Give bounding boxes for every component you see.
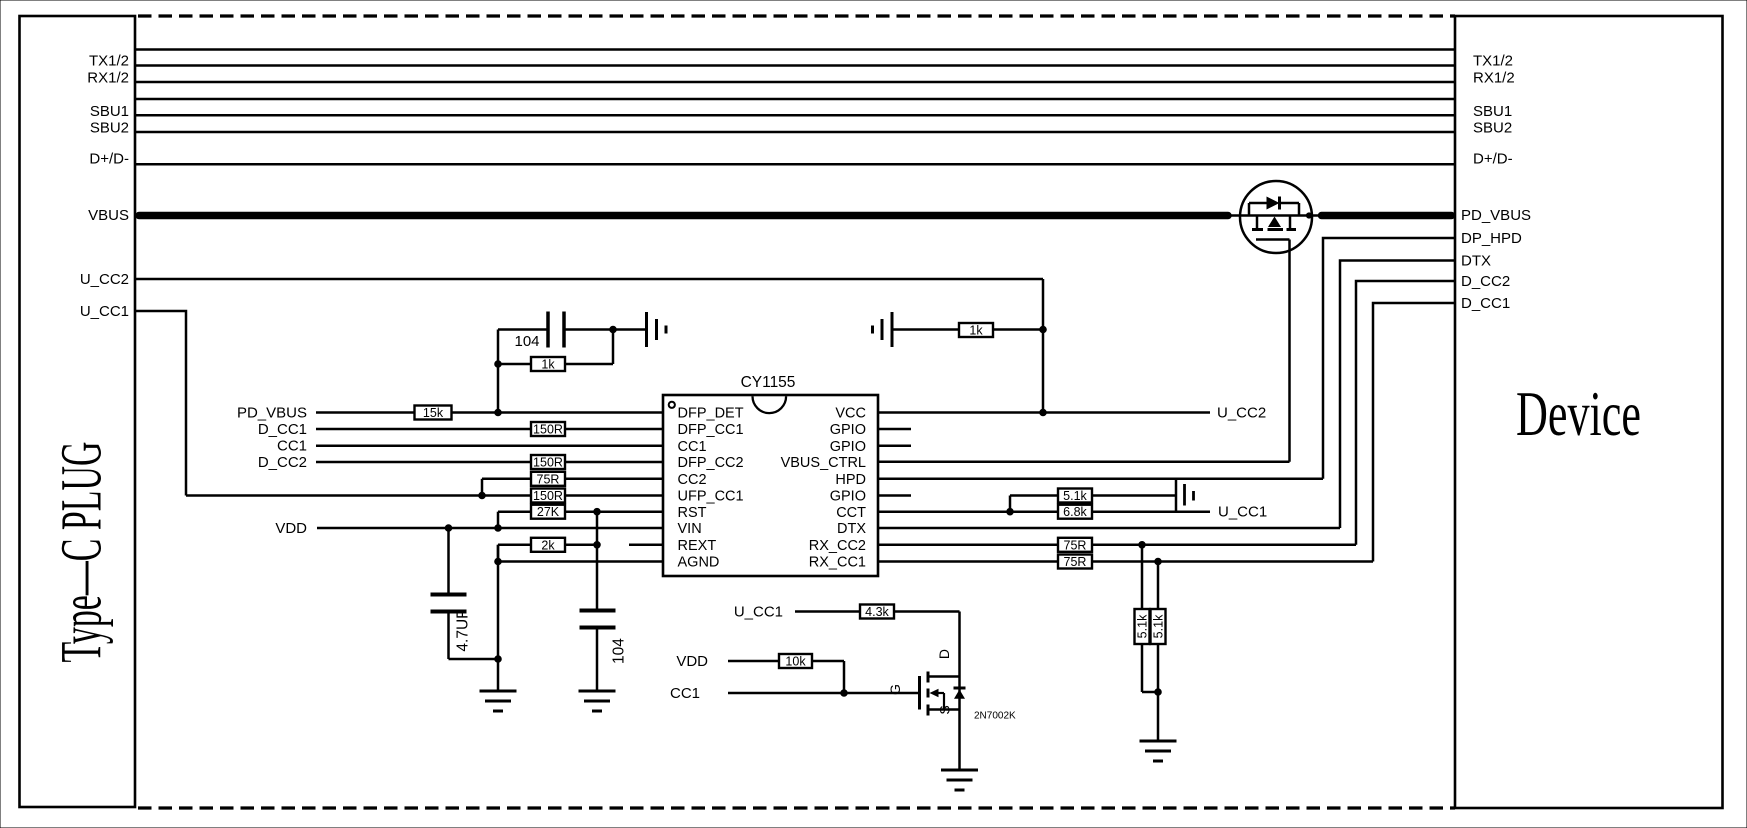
label VDD gate net	[676, 653, 708, 670]
transistor Q2 gate bar	[918, 676, 921, 710]
label RX1/2 left	[87, 70, 129, 87]
label CC1 gate net	[670, 685, 700, 702]
wire C2 to ground rail	[449, 614, 499, 660]
label SBU2 right	[1473, 120, 1512, 137]
wire 5.1k hook	[1010, 496, 1058, 512]
node R9/C3	[594, 542, 601, 549]
wire HPD down to U_CC1	[1175, 479, 1178, 512]
svg-text:27K: 27K	[537, 505, 560, 519]
label U1 CY1155	[741, 374, 796, 391]
wire C1 to ground	[564, 328, 645, 331]
transistor Q1 body arrow	[1268, 217, 1281, 228]
label DP_HPD right	[1461, 230, 1522, 247]
svg-text:150R: 150R	[533, 456, 563, 470]
wire CCT	[878, 510, 1058, 513]
pin RX_CC1 label	[809, 555, 866, 571]
wire DP_HPD net	[1323, 238, 1455, 479]
node C1/R1 left	[495, 361, 502, 368]
label C1 104	[514, 333, 539, 350]
transistor Q2 channel bars	[927, 672, 930, 716]
pin HPD label	[835, 472, 866, 488]
label U_CC1 plug	[80, 303, 129, 320]
svg-text:GPIO: GPIO	[830, 439, 866, 455]
wire TX1 lane	[135, 48, 1455, 51]
svg-text:CC1: CC1	[277, 438, 307, 455]
wire R11 to U_CC1	[1092, 510, 1176, 513]
label Q2 D	[936, 649, 952, 659]
svg-text:2k: 2k	[541, 538, 555, 552]
svg-text:CCT: CCT	[836, 505, 866, 521]
wire RST hook	[498, 512, 531, 528]
wire U_CC1 to R7	[186, 494, 531, 497]
node RST/C3	[594, 508, 601, 515]
pin VCC label	[835, 406, 866, 422]
wire VDD to VIN	[317, 527, 663, 530]
label PD_VBUS net	[237, 405, 307, 422]
wire R3 to DFP_DET	[452, 411, 664, 414]
label VBUS left	[88, 207, 129, 224]
label U_CC1 net	[1218, 504, 1267, 521]
pin VBUS_CTRL label	[781, 455, 866, 471]
label TX1/2 right	[1473, 53, 1513, 70]
svg-text:U_CC1: U_CC1	[1218, 504, 1267, 521]
svg-text:D+/D-: D+/D-	[1473, 151, 1513, 168]
pin CC1 label	[678, 439, 707, 455]
svg-text:SBU1: SBU1	[90, 103, 129, 120]
svg-text:VBUS_CTRL: VBUS_CTRL	[781, 455, 866, 471]
pin GPIO label	[830, 439, 866, 455]
pin CC2 label	[678, 472, 707, 488]
node VBUS switch terminal	[1306, 213, 1311, 218]
node DFP_DET	[495, 409, 502, 416]
ground G4	[579, 691, 616, 711]
resistor R14 5.1k	[1135, 609, 1150, 644]
Type-C plug connector box	[20, 16, 136, 807]
node VDD/C2	[445, 525, 452, 532]
wire R4 to DFP_CC1	[565, 428, 663, 431]
label D_CC1 net	[258, 421, 307, 438]
pin CCT label	[836, 505, 866, 521]
label C3 104	[611, 638, 628, 664]
wire CC2 tap down	[482, 479, 531, 496]
wire VBUS thick right	[1322, 212, 1452, 220]
wire U_CC1 to R16	[795, 610, 860, 613]
svg-text:4.7UF: 4.7UF	[455, 609, 472, 651]
svg-text:Type—C PLUG: Type—C PLUG	[50, 442, 113, 663]
node CCT/R10	[1007, 508, 1014, 515]
node UFP_CC1 tap	[479, 492, 486, 499]
wire R8 to RST	[565, 510, 663, 513]
resistor R11 6.8k	[1058, 505, 1092, 520]
svg-text:VDD: VDD	[275, 520, 307, 537]
svg-text:D_CC2: D_CC2	[1461, 273, 1510, 290]
label U_CC2 net	[1217, 405, 1266, 422]
resistor R2 1k	[959, 323, 993, 338]
wire VDD to R17	[728, 660, 779, 663]
wire R9 right	[565, 544, 597, 547]
node C1/R1 right	[610, 326, 617, 333]
svg-text:UFP_CC1: UFP_CC1	[678, 489, 744, 505]
node R14/R15	[1155, 689, 1162, 696]
svg-text:CC1: CC1	[678, 439, 707, 455]
wire G1 to R2	[892, 328, 959, 331]
svg-text:DFP_CC2: DFP_CC2	[678, 455, 744, 471]
svg-text:D: D	[936, 649, 952, 659]
transistor Q1 body diode	[1249, 197, 1299, 216]
label SBU1 right	[1473, 103, 1512, 120]
label VDD net	[275, 520, 307, 537]
label DTX right	[1461, 253, 1491, 270]
svg-text:75R: 75R	[1064, 538, 1087, 552]
wire R5 to DFP_CC2	[565, 461, 663, 464]
svg-text:RX_CC2: RX_CC2	[809, 538, 866, 554]
wire VCC to U_CC2	[878, 411, 1210, 414]
svg-text:TX1/2: TX1/2	[1473, 53, 1513, 70]
svg-text:1k: 1k	[969, 324, 983, 338]
pin DFP_CC1 label	[678, 422, 744, 438]
ground G7	[941, 770, 978, 790]
pin RST label	[678, 505, 707, 521]
label TX1/2 left	[89, 53, 129, 70]
svg-text:SBU2: SBU2	[1473, 120, 1512, 137]
cable boundary dashed top	[138, 14, 1455, 17]
node RX_CC2 tap	[1139, 542, 1146, 549]
wire R14 to join	[1142, 644, 1158, 692]
node AGND	[495, 558, 502, 565]
resistor R16 4.3k	[860, 605, 894, 620]
wire R10 right	[1092, 494, 1176, 497]
node U_CC2/VCC	[1040, 409, 1047, 416]
label Q2 S	[937, 705, 953, 714]
capacitor C3 104	[580, 611, 616, 628]
wire DFP_DET node up	[497, 330, 500, 413]
svg-text:VDD: VDD	[676, 653, 708, 670]
wire R17 to gate node	[812, 661, 844, 693]
wire D_CC1 net	[1373, 303, 1455, 562]
wire D_CC2 to R5	[316, 461, 531, 464]
svg-text:D_CC1: D_CC1	[1461, 295, 1510, 312]
svg-text:2N7002K: 2N7002K	[974, 711, 1016, 722]
wire GPIO stub 3	[878, 494, 911, 497]
capacitor C2 4.7UF	[431, 595, 467, 612]
svg-text:DFP_DET: DFP_DET	[678, 406, 744, 422]
wire U_CC2 from plug	[135, 279, 1043, 413]
svg-text:U_CC2: U_CC2	[80, 271, 129, 288]
resistor R4 150R	[531, 422, 565, 437]
pin AGND label	[678, 555, 720, 571]
label D+/D- left	[89, 151, 129, 168]
svg-text:4.3k: 4.3k	[865, 605, 889, 619]
svg-text:10k: 10k	[785, 655, 806, 669]
Device box	[1455, 16, 1723, 808]
wire GPIO stub 1	[878, 428, 911, 431]
svg-text:RX1/2: RX1/2	[1473, 70, 1515, 87]
svg-text:75R: 75R	[537, 472, 560, 486]
svg-text:GPIO: GPIO	[830, 422, 866, 438]
transistor Q1 body circle	[1240, 181, 1312, 253]
pin GPIO label	[830, 422, 866, 438]
svg-text:U_CC2: U_CC2	[1217, 405, 1266, 422]
svg-text:PD_VBUS: PD_VBUS	[1461, 207, 1531, 224]
label D_CC1 right	[1461, 295, 1510, 312]
ground G2	[647, 312, 667, 347]
svg-text:150R: 150R	[533, 423, 563, 437]
svg-text:S: S	[937, 705, 953, 714]
wire VDD down to C2	[447, 528, 450, 593]
label D_CC2 right	[1461, 273, 1510, 290]
transistor Q1 channel bars	[1252, 228, 1296, 231]
svg-text:150R: 150R	[533, 489, 563, 503]
svg-text:PD_VBUS: PD_VBUS	[237, 405, 307, 422]
svg-text:CY1155: CY1155	[741, 374, 796, 391]
wire AGND down	[497, 545, 500, 690]
wire SBU1 upper	[135, 98, 1455, 101]
svg-text:104: 104	[611, 638, 628, 664]
svg-text:DFP_CC1: DFP_CC1	[678, 422, 744, 438]
node RX_CC1 tap	[1155, 558, 1162, 565]
wire Q2 drain vertical	[958, 612, 961, 770]
svg-text:5.1k: 5.1k	[1063, 489, 1087, 503]
resistor R9 2k	[531, 538, 565, 553]
svg-text:104: 104	[514, 333, 539, 350]
wire R1 left	[498, 363, 531, 366]
wire RX_CC2 to R12	[878, 544, 1058, 547]
ground G3	[480, 691, 517, 711]
node C2/AGND	[495, 656, 502, 663]
wire RX_CC1 to R13	[878, 560, 1058, 563]
svg-text:CC2: CC2	[678, 472, 707, 488]
transistor Q2 source lead	[928, 708, 960, 711]
wire to C1	[498, 328, 548, 331]
cable boundary dashed bottom	[138, 806, 1455, 809]
wire VBUS_CTRL	[878, 461, 1290, 464]
resistor R5 150R	[531, 455, 565, 470]
capacitor C1 104	[548, 312, 564, 348]
wire D+/D- lane	[135, 163, 1455, 166]
label D_CC2 net	[258, 454, 307, 471]
label Q2 2N7002K	[974, 711, 1016, 722]
svg-text:75R: 75R	[1064, 555, 1087, 569]
pin GPIO label	[830, 489, 866, 505]
label U_CC2 plug	[80, 271, 129, 288]
pin RX_CC2 label	[809, 538, 866, 554]
op-amp U1 CY1155 body	[663, 395, 878, 576]
svg-text:RX1/2: RX1/2	[87, 70, 129, 87]
wire D_CC2 net	[1356, 281, 1455, 545]
ground G1	[873, 312, 893, 347]
Device title	[1516, 378, 1641, 449]
wire U_CC1 from plug	[135, 311, 186, 496]
pin DFP_DET label	[678, 406, 744, 422]
transistor Q1 drain/source taps	[1257, 216, 1290, 229]
svg-text:5.1k: 5.1k	[1152, 614, 1166, 638]
wire R13 right	[1092, 560, 1373, 563]
resistor R1 1k	[531, 357, 565, 372]
ground G6	[1140, 741, 1177, 761]
wire R7 to UFP_CC1	[565, 494, 663, 497]
resistor R13 75R	[1058, 555, 1092, 570]
wire HPD	[878, 478, 1323, 481]
svg-text:DTX: DTX	[837, 521, 866, 537]
transistor Q2 drain lead	[928, 675, 960, 678]
resistor R8 27K	[531, 505, 565, 520]
wire VBUS thin through switch	[1228, 214, 1318, 217]
transistor Q1 gate plate	[1256, 238, 1290, 241]
pin REXT label	[678, 538, 717, 554]
resistor R15 5.1k	[1151, 609, 1166, 644]
label D+/D- right	[1473, 151, 1513, 168]
svg-text:VCC: VCC	[835, 406, 866, 422]
label Q2 G	[887, 684, 903, 695]
wire DTX pin	[878, 527, 1340, 530]
svg-text:D_CC1: D_CC1	[258, 421, 307, 438]
svg-text:VBUS: VBUS	[88, 207, 129, 224]
svg-text:GPIO: GPIO	[830, 489, 866, 505]
transistor Q2 body diode	[954, 688, 966, 699]
resistor R10 5.1k	[1058, 489, 1092, 504]
Type-C PLUG title	[50, 442, 113, 663]
svg-text:G: G	[887, 684, 903, 695]
svg-text:AGND: AGND	[678, 555, 720, 571]
wire TX2 lane	[135, 64, 1455, 67]
svg-text:15k: 15k	[423, 406, 444, 420]
wire GPIO stub 2	[878, 444, 911, 447]
wire R15 to ground	[1157, 644, 1160, 740]
pin DFP_CC2 label	[678, 455, 744, 471]
wire REXT stub	[629, 544, 663, 547]
wire 2k hook	[498, 545, 531, 562]
svg-text:D+/D-: D+/D-	[89, 151, 129, 168]
pin UFP_CC1 label	[678, 489, 744, 505]
wire C3 to ground	[596, 630, 599, 691]
wire AGND	[498, 560, 663, 563]
svg-text:SBU2: SBU2	[90, 120, 129, 137]
wire R16 to drain	[894, 610, 960, 613]
node U_CC2/R2	[1040, 326, 1047, 333]
wire U_CC1 tail	[1176, 510, 1210, 513]
svg-text:VIN: VIN	[678, 521, 702, 537]
pin DTX label	[837, 521, 866, 537]
label U_CC1 gate net	[734, 604, 783, 621]
wire R1 right up	[612, 330, 615, 365]
svg-text:Device: Device	[1516, 378, 1641, 449]
svg-text:U_CC1: U_CC1	[80, 303, 129, 320]
resistor R3 15k	[415, 406, 452, 421]
wire DTX net	[1340, 261, 1455, 529]
label SBU2 left	[90, 120, 129, 137]
transistor Q2 body arrow	[930, 689, 945, 710]
wire RX lane	[135, 81, 1455, 84]
wire R12 right	[1092, 544, 1356, 547]
label CC1 net	[277, 438, 307, 455]
resistor R7 150R	[531, 489, 565, 504]
svg-text:TX1/2: TX1/2	[89, 53, 129, 70]
wire CC1 to pin	[316, 444, 663, 447]
pin VIN label	[678, 521, 702, 537]
label SBU1 left	[90, 103, 129, 120]
wire R2 to U_CC2	[993, 328, 1043, 331]
node gate	[841, 690, 848, 697]
svg-text:1k: 1k	[541, 358, 555, 372]
svg-text:SBU1: SBU1	[1473, 103, 1512, 120]
svg-text:RST: RST	[678, 505, 707, 521]
svg-text:U_CC1: U_CC1	[734, 604, 783, 621]
label C2 4.7UF	[455, 609, 472, 651]
wire SBU1 lane	[135, 114, 1455, 117]
svg-text:HPD: HPD	[835, 472, 866, 488]
svg-text:REXT: REXT	[678, 538, 717, 554]
resistor R12 75R	[1058, 538, 1092, 553]
wire PD_VBUS to R3	[316, 411, 415, 414]
wire D_CC1 to R4	[316, 428, 531, 431]
svg-text:5.1k: 5.1k	[1136, 614, 1150, 638]
resistor R6 75R	[531, 472, 565, 487]
svg-text:DP_HPD: DP_HPD	[1461, 230, 1522, 247]
svg-text:CC1: CC1	[670, 685, 700, 702]
wire R1 right	[565, 363, 613, 366]
node VDD/R8	[495, 525, 502, 532]
svg-text:D_CC2: D_CC2	[258, 454, 307, 471]
svg-text:RX_CC1: RX_CC1	[809, 555, 866, 571]
wire R6 to CC2	[565, 478, 663, 481]
wire VBUS thick left	[139, 212, 1228, 220]
svg-text:6.8k: 6.8k	[1063, 505, 1087, 519]
wire SBU2 lane	[135, 131, 1455, 134]
ground G5	[1185, 484, 1194, 506]
wire CC1 to gate	[728, 692, 918, 695]
wire RX_CC2 down	[1141, 545, 1144, 609]
resistor R17 10k	[779, 654, 812, 669]
label RX1/2 right	[1473, 70, 1515, 87]
svg-text:DTX: DTX	[1461, 253, 1491, 270]
wire RX_CC1 down	[1157, 562, 1160, 610]
wire RST down to C3	[596, 512, 599, 609]
wire Q1 gate to VBUS_CTRL	[1288, 240, 1291, 462]
label PD_VBUS right	[1461, 207, 1531, 224]
